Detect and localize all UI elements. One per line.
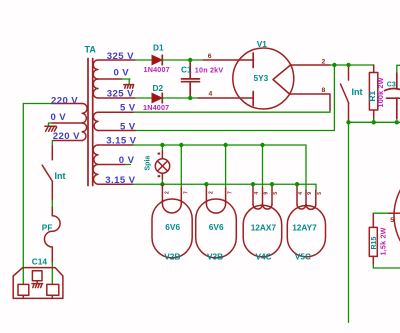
wire HT 0V stub (98, 78, 122, 80)
wire top bus drop to V4C pin 9 (262, 145, 264, 188)
junction C1 top (188, 58, 192, 62)
svg-text:9: 9 (264, 192, 270, 195)
junction V4C pin 4 (251, 182, 255, 186)
svg-text:3.15 V: 3.15 V (105, 175, 135, 186)
svg-text:D2: D2 (153, 83, 164, 93)
svg-text:R15: R15 (371, 237, 378, 250)
pin mark lamp top (158, 153, 161, 155)
ground (C14 earth pin) (32, 284, 43, 288)
svg-text:5: 5 (273, 192, 279, 195)
svg-text:10n 2kV: 10n 2kV (195, 65, 224, 74)
svg-text:1N4007: 1N4007 (143, 103, 169, 112)
wire mains left vertical (C14 left pin to 220V top) (23, 104, 52, 285)
svg-text:7: 7 (183, 191, 189, 194)
wire top bus drop to V2B pin 7 (180, 145, 182, 188)
wire 3.15V top tap / heater bus top (98, 144, 133, 146)
svg-text:PF: PF (42, 222, 53, 232)
junction V3B pin 2 (204, 182, 208, 186)
resistor R1 (373, 65, 375, 73)
svg-text:V2B: V2B (164, 252, 180, 262)
tube V5C (12AY7 heater) (287, 184, 325, 257)
wire 325V bottom tap to D2 (98, 97, 135, 99)
V1 pin 8 lead (290, 94, 331, 111)
svg-text:1N4007: 1N4007 (144, 65, 170, 74)
transformer TA 6.3V secondary winding (3.15-0-3.15) (93, 145, 98, 184)
svg-text:V4C: V4C (256, 251, 272, 261)
wire 5V top tap (98, 111, 133, 113)
junction C1 bottom (188, 96, 192, 100)
capacitor C1 (182, 61, 200, 97)
wire bottom bus end drop to V5C pin 5 (315, 184, 317, 190)
wire pin8 to 5V top (133, 111, 330, 113)
switch Int (mains) (42, 146, 52, 200)
svg-text:2: 2 (322, 59, 326, 66)
wire stub to primary ground (48, 123, 50, 126)
svg-text:325 V: 325 V (107, 89, 134, 100)
transformer TA HT secondary winding (325-0-325) (93, 60, 98, 98)
junction V5C pin 4 (295, 182, 299, 186)
wire D1 cathode to pin 6 (162, 59, 203, 61)
pin mark lamp bottom (158, 175, 161, 177)
switch Int (standby) (341, 65, 349, 122)
svg-text:Spia: Spia (145, 156, 152, 171)
svg-text:325 V: 325 V (107, 51, 134, 62)
svg-text:D1: D1 (153, 43, 164, 53)
svg-text:V5C: V5C (295, 251, 311, 261)
junction switch top (346, 63, 350, 67)
svg-text:5 V: 5 V (120, 102, 136, 113)
svg-text:4: 4 (209, 90, 213, 97)
tube V3B (6V6 heater) (196, 184, 237, 258)
svg-text:8: 8 (322, 87, 326, 94)
junction C3 bottom (395, 120, 399, 124)
wire 0V heater stub (98, 164, 125, 166)
svg-text:12AX7: 12AX7 (251, 222, 277, 232)
ground (HT 0V) (124, 85, 134, 89)
svg-text:0 V: 0 V (114, 68, 130, 79)
junction switch bottom (346, 120, 350, 124)
svg-text:C1: C1 (181, 64, 192, 74)
svg-text:4: 4 (254, 192, 260, 195)
junction R1 bottom (372, 120, 376, 124)
V1 filament (273, 65, 291, 94)
transformer TA 5V secondary winding (93, 112, 98, 130)
transformer TA primary winding (82, 104, 87, 141)
svg-text:220 V: 220 V (51, 96, 78, 107)
wire pin2 node (B+ top) (330, 64, 374, 66)
wire R15 top to tube pin (373, 212, 388, 214)
tube envelope (off-page, partial) (394, 162, 400, 270)
wire standby down branch (348, 122, 350, 322)
wire D2 cathode to pin 4 (162, 97, 198, 99)
wire fuse to C14 right pin (51, 262, 53, 284)
wire pin2 down branch to 5V bottom (135, 65, 334, 131)
tube V2B (6V6 heater) (152, 184, 192, 258)
svg-text:C14: C14 (32, 257, 48, 267)
V1 plate pin 6 (204, 59, 254, 61)
lamp Spia (161, 145, 163, 151)
tube V4C (12AX7 heater) (243, 184, 282, 257)
pin of off-page tube (pin 5) (389, 212, 400, 214)
junction pin2/5V branch (332, 63, 336, 67)
svg-text:6: 6 (208, 53, 212, 60)
wire bottom node (switch/R1/C3) (349, 121, 400, 123)
svg-text:7: 7 (228, 191, 234, 194)
svg-text:100k 2W: 100k 2W (376, 77, 385, 107)
svg-text:6V6: 6V6 (209, 222, 224, 232)
svg-text:5Y3: 5Y3 (254, 73, 269, 83)
wire 325V top tap to D1 (98, 59, 135, 61)
wire 0V primary (49, 122, 53, 124)
junction lamp bottom / V2B heater pin (160, 182, 164, 186)
svg-text:Int: Int (352, 87, 363, 97)
svg-text:5 V: 5 V (120, 121, 136, 132)
junction lamp top (160, 143, 164, 147)
tube V1 envelope (233, 48, 294, 109)
wire switch to fuse (51, 200, 53, 207)
svg-text:6V6: 6V6 (165, 222, 180, 232)
wire 220V top tap (red pin part) (52, 103, 82, 105)
svg-text:1,5k 2W: 1,5k 2W (379, 227, 388, 255)
svg-text:C3: C3 (387, 82, 396, 89)
diode D1 (152, 55, 162, 65)
diode D2 (152, 93, 162, 103)
ground (primary 0V) (45, 126, 57, 131)
svg-text:2: 2 (208, 191, 214, 194)
svg-text:9: 9 (307, 192, 313, 195)
capacitor C3 (polarized) (385, 73, 400, 119)
svg-text:0 V: 0 V (119, 155, 135, 166)
V1 plate pin 4 (198, 97, 253, 99)
svg-text:V3B: V3B (207, 252, 223, 262)
svg-text:Int: Int (55, 171, 66, 181)
svg-text:220 V: 220 V (53, 131, 80, 142)
transformer TA core (87, 59, 89, 186)
connector C14 (IEC inlet) (13, 268, 63, 299)
svg-text:5: 5 (317, 192, 323, 195)
wire 5V bottom tap (98, 130, 135, 132)
V1 pin 2 lead (291, 64, 331, 66)
resistor R15 (372, 213, 374, 227)
fuse PF (44, 207, 60, 262)
wire R15 bottom to right edge (373, 265, 400, 269)
junction V4C pin 5 (270, 182, 274, 186)
svg-text:3.15 V: 3.15 V (106, 136, 136, 147)
svg-text:12AY7: 12AY7 (292, 222, 317, 232)
wire top bus end drop to V5C pin 9 (305, 145, 307, 190)
svg-text:2: 2 (164, 191, 170, 194)
svg-text:4: 4 (298, 192, 304, 195)
svg-text:0 V: 0 V (51, 112, 67, 123)
wire C3 top stub from right edge (397, 65, 400, 73)
wire 220V bottom tap (52, 141, 54, 147)
svg-text:TA: TA (85, 45, 97, 55)
wire 3.15V bottom tap / heater bus bottom (98, 183, 133, 185)
wire top bus drop to V3B pin 7 (225, 145, 227, 188)
svg-text:V1: V1 (257, 39, 268, 49)
